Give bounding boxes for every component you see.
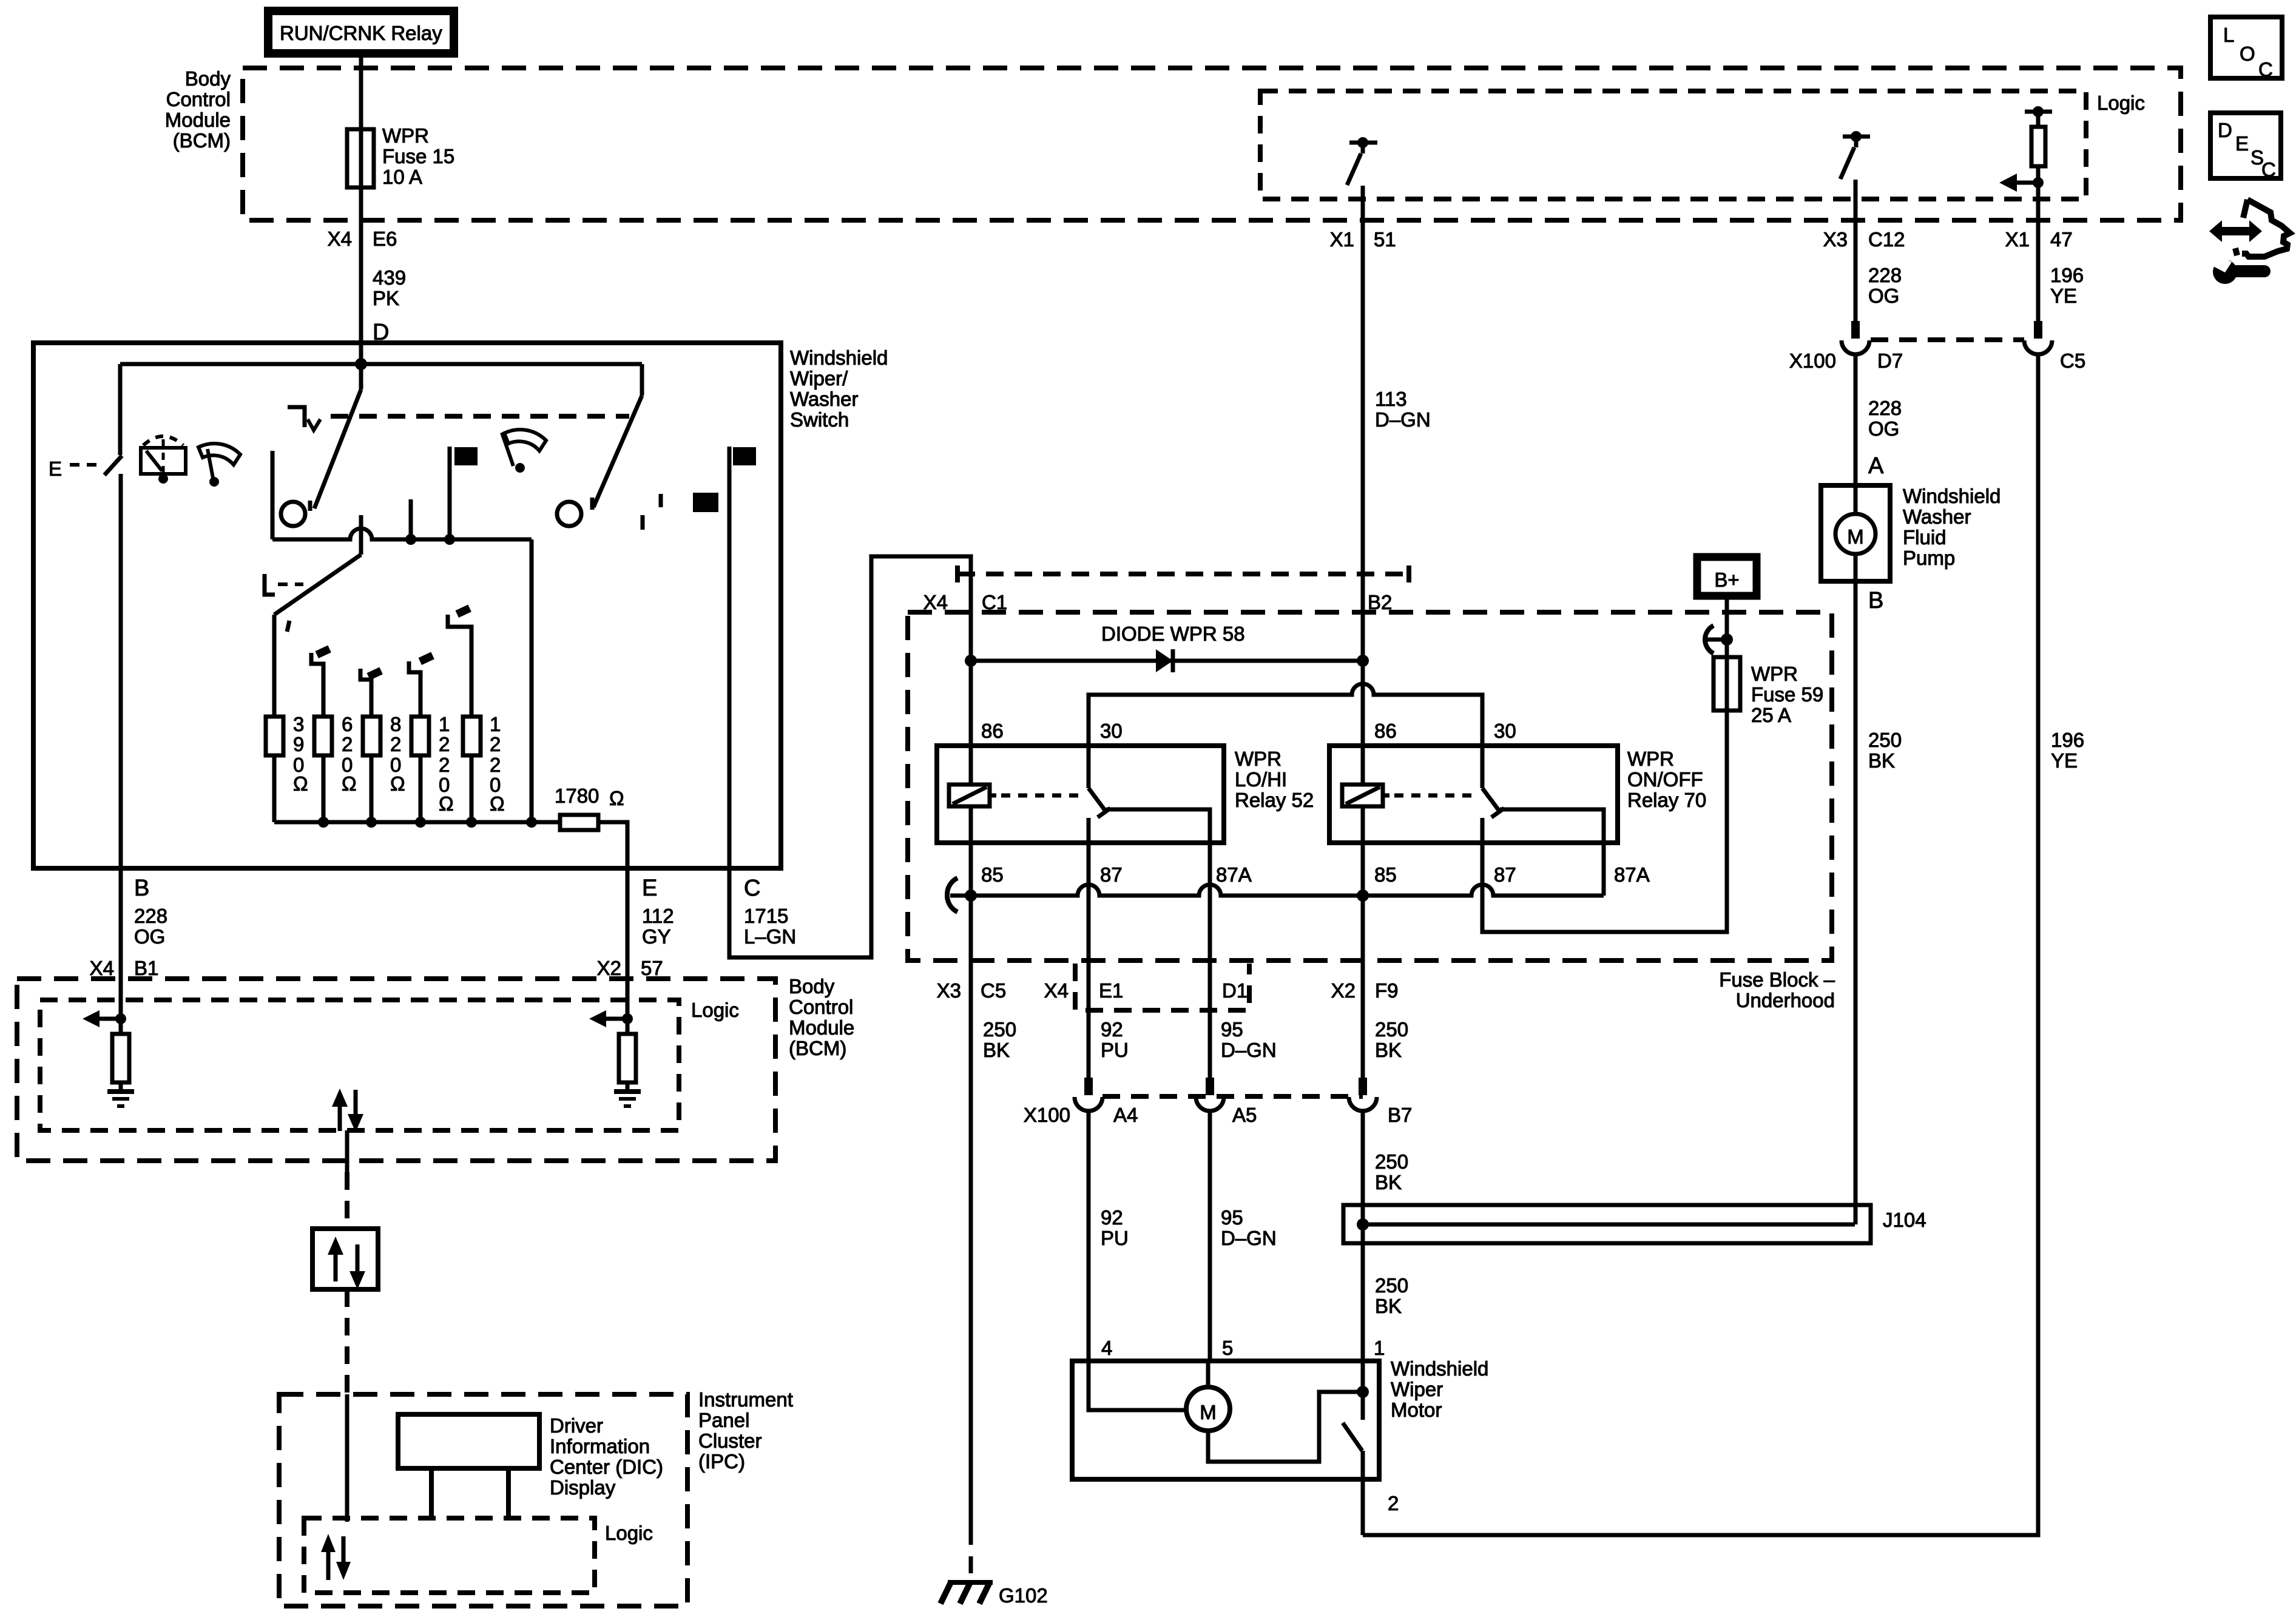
wire motor return to park node (1208, 1392, 1363, 1462)
wire label 228 OG (below X100) (1868, 397, 1902, 440)
svg-text:Fluid: Fluid (1903, 526, 1947, 549)
svg-text:BK: BK (1868, 749, 1895, 772)
svg-text:Windshield: Windshield (1391, 1357, 1488, 1380)
svg-text:M: M (1200, 1401, 1217, 1423)
wire: relay52 87 to E1 (1087, 818, 1091, 960)
svg-text:250: 250 (983, 1018, 1016, 1041)
wire label 228 OG (pin B) (134, 905, 167, 948)
wire: contact bus with hop over blade stub (272, 528, 532, 539)
wire R3 bottom lead (370, 755, 374, 822)
wire label 228 OG (1868, 264, 1902, 307)
switch blade (delay/main blade) (359, 364, 363, 390)
svg-text:2: 2 (342, 733, 353, 755)
svg-text:BK: BK (983, 1039, 1010, 1061)
svg-text:C: C (2258, 58, 2273, 81)
wire label 196 YE (2050, 264, 2084, 307)
svg-text:E: E (642, 876, 657, 901)
connector socket arc B7 (1349, 1097, 1377, 1111)
svg-text:Motor: Motor (1391, 1399, 1442, 1421)
svg-text:87A: 87A (1216, 863, 1252, 886)
diode WPR 58 (1156, 649, 1173, 672)
svg-text:1: 1 (490, 713, 501, 735)
svg-text:Body: Body (789, 975, 835, 998)
svg-text:B: B (1868, 588, 1883, 613)
connector socket arc C5 (2024, 340, 2052, 354)
wire 196 YE return to washer switch (1363, 353, 2038, 1535)
svg-text:2: 2 (439, 754, 450, 776)
BCM (top) outer dashed box (243, 68, 2181, 220)
wire: selector blade to R1 (272, 615, 277, 717)
svg-text:X4: X4 (328, 228, 352, 250)
resistor R 1780 ohm (560, 815, 598, 830)
wire label 92 PU (1101, 1018, 1129, 1061)
label Body Control Module (BCM) (789, 975, 854, 1059)
svg-text:86: 86 (981, 720, 1004, 742)
selector contact stub for R2 (311, 645, 331, 717)
svg-text:Windshield: Windshield (790, 346, 888, 369)
label Body Control Module (BCM) top-left (165, 67, 231, 152)
svg-text:Logic: Logic (605, 1522, 653, 1544)
washer momentary pad and pin C column (729, 447, 756, 868)
connector X100 dashed boundary (1871, 337, 2024, 342)
svg-text:Windshield: Windshield (1903, 485, 2001, 507)
svg-text:Fuse 59: Fuse 59 (1751, 683, 1823, 706)
delay driver symbol L with dashed link (265, 574, 303, 595)
svg-text:OG: OG (134, 925, 165, 948)
relay 52 coil feed wire (86 to 85) (969, 661, 973, 896)
wire 228 OG to washer pump A (1854, 353, 1858, 515)
svg-text:113: 113 (1375, 388, 1407, 410)
connector X3 pin C12 labels (1823, 228, 1905, 251)
connector X100 dashed boundary (1102, 1094, 1363, 1099)
svg-text:C5: C5 (2060, 349, 2085, 372)
value label 1220 ohm (490, 713, 505, 815)
serial data gateway box (312, 1229, 378, 1289)
svg-text:85: 85 (1374, 863, 1397, 886)
svg-text:87: 87 (1494, 863, 1516, 886)
svg-text:51: 51 (1374, 228, 1396, 251)
wire E 112 GY to BCM X2:57 (626, 868, 630, 1019)
windshield washer fluid pump (1821, 485, 1890, 581)
park switch blade (1343, 1423, 1362, 1451)
windshield wiper/washer switch box (33, 343, 781, 868)
label Driver Information Center (DIC) Display (550, 1414, 663, 1499)
svg-text:D: D (2218, 119, 2232, 141)
svg-text:B1: B1 (134, 957, 158, 979)
wire: resistor ladder bottom bus (274, 820, 560, 825)
motor M (1186, 1387, 1230, 1431)
svg-text:250: 250 (1868, 729, 1902, 751)
svg-text:X100: X100 (1789, 349, 1836, 372)
connector X4 pin E6 labels (328, 228, 397, 250)
fuse block outer dashed box (908, 612, 1832, 960)
wire C 1715 L-GN to fuse block X4:C1 (729, 556, 971, 957)
svg-text:WPR: WPR (1235, 748, 1281, 770)
svg-text:WPR: WPR (1751, 663, 1798, 685)
wire serial data out of logic (345, 1130, 349, 1172)
wire 196 YE from X1:47 down to X100:C5 (2036, 220, 2041, 331)
signal arrow (left) (83, 1010, 121, 1027)
svg-text:Washer: Washer (1903, 505, 1971, 528)
svg-text:BK: BK (1375, 1039, 1402, 1061)
serial data arrows (BCM logic) (332, 1089, 363, 1132)
svg-text:A4: A4 (1113, 1104, 1138, 1126)
label Windshield Wiper/Washer Switch (790, 346, 888, 431)
svg-text:PU: PU (1101, 1227, 1129, 1249)
svg-text:Display: Display (550, 1476, 616, 1499)
wire 95 D-GN to wiper motor pin 5 (1208, 1111, 1212, 1361)
wire: B+ to fuse 59 (1725, 599, 1729, 657)
Logic dashed box (lower BCM) (40, 1000, 679, 1130)
svg-text:C: C (2261, 158, 2276, 181)
wire: rail left leg down to park contact (118, 364, 123, 455)
B+ feed box (1697, 557, 1757, 596)
connector socket arc D7 (1842, 340, 1869, 354)
svg-text:Pump: Pump (1903, 547, 1955, 569)
windshield wiper motor box (1072, 1361, 1379, 1479)
delay driver symbol Tv (288, 407, 320, 430)
svg-text:BK: BK (1375, 1171, 1402, 1193)
svg-text:Ω: Ω (490, 792, 505, 815)
connector X4 pin B1 labels (90, 957, 159, 979)
ground (internal, right) (614, 1092, 641, 1106)
svg-text:X1: X1 (2005, 228, 2030, 251)
LOC reference box (2210, 17, 2282, 81)
node: relay52 85 to ground (965, 890, 977, 902)
svg-text:25 A: 25 A (1751, 704, 1791, 726)
wire label 250 BK (1375, 1018, 1408, 1061)
wire label 250 BK (below J104) (1375, 1274, 1408, 1317)
wire: left column down to pin B (119, 474, 123, 868)
signal arrow (right) (589, 1010, 627, 1027)
IPC outer dashed box (279, 1394, 687, 1606)
value label WPR Fuse 59 25 A (1751, 663, 1823, 726)
svg-text:B2: B2 (1368, 591, 1392, 613)
wire label 250 BK (below B7) (1375, 1150, 1408, 1193)
value label WPR Fuse 15 10 A (382, 124, 454, 188)
svg-text:Ω: Ω (609, 787, 624, 809)
pin labels 4 5 1 (1101, 1337, 1385, 1359)
value label 390 ohm (293, 713, 308, 795)
wire R5 bottom lead (470, 755, 474, 822)
svg-text:WPR: WPR (382, 124, 429, 147)
wire label 92 PU (1101, 1206, 1129, 1249)
svg-text:B+: B+ (1714, 569, 1739, 591)
label WPR ON/OFF Relay 70 (1627, 748, 1706, 811)
wire from RUN/CRNK relay through fuse 15 down to switch pin D (359, 58, 363, 364)
svg-text:Fuse Block –: Fuse Block – (1719, 968, 1835, 991)
svg-text:X3: X3 (1823, 228, 1848, 251)
contact circle (right) (557, 502, 581, 526)
selector position tick (287, 621, 289, 632)
nodes on ladder bus (318, 817, 329, 828)
wire 113 D-GN from X1:51 down to fuse block B2 (1361, 186, 1365, 661)
label Fuse Block - Underhood (1719, 968, 1835, 1011)
serial data dashed link to IPC (345, 1289, 349, 1394)
svg-text:196: 196 (2051, 729, 2084, 751)
value label 1780 ohm (555, 785, 624, 809)
resistor R 620 ohm (314, 717, 332, 755)
svg-text:85: 85 (981, 863, 1004, 886)
fuse F15 (WPR Fuse 15 10A) (347, 129, 374, 187)
wire: relay70 87 to fuse 59 (1482, 711, 1727, 932)
svg-text:ON/OFF: ON/OFF (1627, 768, 1703, 791)
wire pin 1 into motor (1361, 1361, 1365, 1420)
label Instrument Panel Cluster (IPC) (698, 1388, 793, 1473)
terminal bar at X100:A4 (1084, 1078, 1093, 1095)
dashed continuation to G102 (969, 1528, 973, 1581)
svg-text:(IPC): (IPC) (698, 1450, 745, 1473)
ground (internal, left) (107, 1092, 134, 1106)
label Windshield Wiper Motor (1391, 1357, 1488, 1421)
wire pin 5 to motor (1206, 1361, 1210, 1387)
washer spray icon (141, 436, 186, 484)
pull-up resistor (right) (619, 1034, 636, 1082)
switch (wiper on/off driver) at X1:51 (1347, 137, 1377, 185)
wire 92 PU to wiper motor pin 4 (1087, 1111, 1091, 1361)
svg-text:X2: X2 (1331, 979, 1356, 1002)
svg-text:G102: G102 (999, 1584, 1048, 1607)
value label 620 ohm (342, 713, 357, 795)
resistor R 1220 ohm (411, 717, 429, 755)
wire 250 BK pump to J104 (1854, 553, 1858, 1224)
svg-text:D1: D1 (1222, 979, 1248, 1002)
wire label 250 BK (1868, 729, 1902, 772)
wire B 228 OG to BCM X4:B1 (119, 868, 123, 1019)
svg-text:Logic: Logic (691, 999, 739, 1021)
svg-text:Switch: Switch (790, 408, 849, 431)
svg-text:F9: F9 (1375, 979, 1399, 1002)
node: switch common feed (pin D) (355, 358, 367, 370)
svg-text:A5: A5 (1232, 1104, 1257, 1126)
svg-text:Driver: Driver (550, 1414, 603, 1437)
svg-text:WPR: WPR (1627, 748, 1674, 770)
contact circle (left) (281, 502, 305, 526)
connector X2 pin 57 labels (597, 957, 663, 979)
terminal bar at X100:D7 (1851, 321, 1860, 339)
svg-text:2: 2 (490, 754, 501, 776)
svg-text:M: M (1847, 525, 1864, 548)
svg-text:X100: X100 (1024, 1104, 1070, 1126)
selector contact stub for R3 (360, 667, 383, 717)
svg-text:(BCM): (BCM) (173, 129, 231, 152)
contact tick (off position) (641, 515, 645, 530)
svg-text:Underhood: Underhood (1736, 989, 1835, 1011)
svg-text:C1: C1 (982, 591, 1007, 613)
wire: relay70 87A to ground bus (1500, 809, 1604, 896)
wire 250 BK from X3:C5 to G102 (969, 896, 973, 1528)
label WPR LO/HI Relay 52 (1235, 748, 1314, 811)
svg-text:C5: C5 (981, 979, 1006, 1002)
bus bar clip at fuse 59 (1705, 626, 1733, 653)
resistor R 820 ohm (363, 717, 380, 755)
svg-text:92: 92 (1101, 1206, 1123, 1229)
wire R2 bottom lead (322, 755, 326, 822)
svg-text:L: L (2223, 24, 2234, 46)
svg-text:DIODE WPR 58: DIODE WPR 58 (1101, 623, 1245, 645)
switch (washer driver) at X3:C12 (1840, 131, 1870, 179)
svg-text:E: E (2235, 132, 2249, 155)
svg-text:PK: PK (373, 287, 399, 309)
svg-text:Ω: Ω (390, 772, 405, 795)
relay 70 coil feed wire (86 to 85) (1361, 661, 1365, 896)
contact tick at blade tip (left) (308, 501, 312, 511)
svg-text:6: 6 (342, 713, 353, 735)
svg-text:Relay 70: Relay 70 (1627, 789, 1706, 811)
wire: delay wiper stub through hop (359, 515, 363, 555)
svg-text:E1: E1 (1099, 979, 1123, 1002)
wire label 95 D-GN (1221, 1018, 1277, 1061)
wire: resistor ladder right rail (530, 539, 534, 822)
svg-text:87A: 87A (1614, 863, 1650, 886)
Logic dashed box (IPC) (304, 1518, 595, 1593)
svg-text:2: 2 (490, 733, 501, 755)
svg-text:8: 8 (390, 713, 401, 735)
terminal bar at X100:A5 (1206, 1078, 1214, 1095)
connector X1 pin 51 labels (1330, 228, 1396, 251)
label Windshield Washer Fluid Pump (1903, 485, 2001, 569)
node: relay70 85 to ground (1357, 890, 1369, 902)
wire: ground bus 250 BK with hops over 87/87A wires (950, 885, 1604, 896)
svg-text:J104: J104 (1883, 1209, 1926, 1231)
svg-text:RUN/CRNK Relay: RUN/CRNK Relay (280, 22, 442, 44)
svg-text:87: 87 (1100, 863, 1123, 886)
svg-text:D–GN: D–GN (1375, 408, 1431, 431)
svg-text:BK: BK (1375, 1295, 1402, 1317)
serial data arrows (IPC logic) (321, 1534, 351, 1580)
svg-text:112: 112 (642, 905, 674, 927)
value label 1220 ohm (439, 713, 454, 815)
svg-text:Ω: Ω (342, 772, 357, 795)
ground G102 (940, 1581, 1048, 1607)
wire 92 PU from E1 to X100:A4 (1087, 960, 1091, 1078)
node: C1/diode junction (965, 655, 977, 667)
input sense node at B1 (115, 1013, 126, 1024)
svg-text:228: 228 (1868, 397, 1902, 419)
node: intermittent post junction (405, 534, 416, 545)
pull-up resistor with feedback arrow at X1:47 (1999, 106, 2052, 220)
WPR LO/HI Relay 52 (937, 746, 1224, 843)
DIC display (398, 1414, 539, 1518)
svg-text:X4: X4 (923, 591, 948, 613)
svg-text:1715: 1715 (744, 905, 788, 927)
wire: diode link C1 to B2 (971, 659, 1363, 663)
switch blade (delay resistor selector) (274, 555, 361, 615)
wire pin 2 out of motor (1361, 1451, 1365, 1535)
wiper sweep icon (198, 444, 240, 487)
svg-text:B: B (134, 876, 149, 901)
pull-up resistor (left) (112, 1034, 129, 1082)
svg-text:250: 250 (1375, 1018, 1408, 1041)
svg-text:10 A: 10 A (382, 166, 422, 188)
svg-text:C: C (744, 876, 760, 901)
wiper position icon (with slash) (502, 430, 546, 473)
mist momentary contact tick and pad (661, 493, 718, 512)
svg-text:Fuse 15: Fuse 15 (382, 145, 454, 167)
value label 820 ohm (390, 713, 405, 795)
svg-text:1780: 1780 (555, 785, 599, 807)
wire 228 OG from X3:C12 to X100:D7 (1854, 180, 1858, 331)
WPR ON/OFF Relay 70 (1329, 746, 1618, 843)
svg-text:1: 1 (439, 713, 450, 735)
wire: internal feed rail (120, 362, 642, 366)
svg-text:228: 228 (1868, 264, 1902, 286)
svg-text:Information: Information (550, 1435, 650, 1457)
svg-text:Ω: Ω (293, 772, 308, 795)
connector socket arc A5 (1196, 1097, 1224, 1111)
svg-text:95: 95 (1221, 1206, 1243, 1229)
service information icon (double arrow, connector outline, wrench) (2209, 200, 2290, 284)
input sense node at 57 (622, 1013, 633, 1024)
svg-text:439: 439 (373, 266, 406, 289)
svg-text:Wiper/: Wiper/ (790, 367, 848, 390)
svg-text:1: 1 (1374, 1337, 1385, 1359)
wire 95 D-GN from D1 to X100:A5 (1208, 960, 1212, 1078)
high-speed contact post with pad (450, 447, 478, 539)
wire: relay52 87A to D1 (1106, 809, 1210, 960)
svg-text:YE: YE (2050, 285, 2077, 307)
svg-text:2: 2 (1388, 1492, 1399, 1514)
fuse F59 (WPR Fuse 59 25A) (1714, 657, 1740, 711)
wire label 196 YE (right side) (2051, 729, 2084, 772)
pin label E with dashed link (park signal) (49, 457, 104, 480)
svg-text:47: 47 (2050, 228, 2073, 251)
svg-text:57: 57 (641, 957, 663, 979)
wire label 250 BK (983, 1018, 1016, 1061)
svg-text:9: 9 (293, 733, 304, 755)
svg-text:95: 95 (1221, 1018, 1243, 1041)
svg-text:250: 250 (1375, 1150, 1408, 1173)
svg-text:D–GN: D–GN (1221, 1227, 1277, 1249)
wire pin 4 to motor (1089, 1361, 1186, 1410)
wire: 1780 to pin E (598, 822, 627, 868)
svg-text:92: 92 (1101, 1018, 1123, 1041)
svg-text:228: 228 (134, 905, 167, 927)
svg-text:GY: GY (642, 925, 671, 948)
connector X4 dashed outline at fuse block bottom (1075, 964, 1249, 1010)
wire 250 BK from X2:F9 to X100:B7 (1361, 896, 1365, 1078)
low-speed contact post (271, 451, 275, 539)
svg-text:YE: YE (2051, 749, 2078, 772)
switch blade (park switch) (104, 456, 122, 475)
resistor R 390 ohm (266, 717, 283, 755)
Logic dashed box (top right, inside BCM) (1260, 91, 2086, 199)
svg-text:(BCM): (BCM) (789, 1037, 846, 1059)
svg-text:Logic: Logic (2097, 92, 2145, 114)
svg-text:C12: C12 (1868, 228, 1905, 251)
svg-text:E: E (49, 457, 62, 480)
wire label 95 D-GN (1221, 1206, 1277, 1249)
wire: relay30 bus with hop over B2 wire (1089, 684, 1482, 746)
svg-text:4: 4 (1101, 1337, 1112, 1359)
svg-text:Control: Control (166, 88, 231, 110)
wire label 1715 L-GN (pin C) (744, 905, 796, 948)
switch blade (mist/high blade, right) (640, 364, 644, 396)
svg-text:Cluster: Cluster (698, 1430, 762, 1452)
DESC reference box (2210, 113, 2281, 181)
svg-text:D7: D7 (1877, 349, 1903, 372)
svg-text:L–GN: L–GN (744, 925, 796, 948)
svg-text:OG: OG (1868, 417, 1899, 440)
svg-text:Instrument: Instrument (698, 1388, 793, 1411)
selector contact stub for R5 (448, 604, 471, 717)
contact tick at blade tip (right) (590, 498, 595, 510)
pin labels B E C under switch box (134, 876, 760, 901)
wire to internal ground (626, 1019, 630, 1091)
pin labels relay 70 (1374, 720, 1650, 886)
selector contact stub for R4 (409, 652, 434, 717)
connector labels at fuse block bottom (937, 979, 1399, 1002)
